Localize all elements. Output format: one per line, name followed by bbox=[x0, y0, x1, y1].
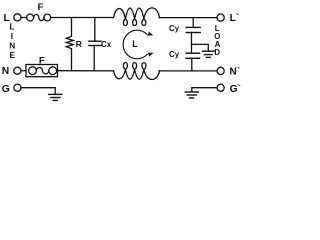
wire bbox=[21, 70, 26, 72]
svg-text:L: L bbox=[10, 23, 15, 32]
svg-text:F: F bbox=[39, 55, 45, 66]
ground branch (middle right) bbox=[192, 44, 209, 50]
svg-text:N: N bbox=[9, 41, 15, 50]
svg-text:D: D bbox=[214, 48, 220, 57]
terminal N bbox=[14, 67, 21, 74]
svg-text:G: G bbox=[2, 84, 10, 95]
fuse F2 (boxed) bbox=[26, 65, 58, 77]
svg-text:I: I bbox=[11, 32, 13, 41]
capacitor Cy (bottom) bbox=[186, 53, 200, 58]
wire bbox=[51, 17, 114, 19]
svg-text:N`: N` bbox=[229, 66, 240, 77]
terminal G bbox=[14, 84, 21, 91]
terminal L bbox=[14, 14, 21, 21]
svg-text:Cy: Cy bbox=[169, 24, 180, 33]
svg-text:L: L bbox=[132, 39, 138, 49]
svg-text:Cy: Cy bbox=[169, 50, 180, 59]
fuse F1 bbox=[27, 14, 34, 21]
terminal G' with ground bbox=[217, 84, 224, 91]
resistor R bbox=[66, 18, 73, 71]
svg-text:L`: L` bbox=[230, 13, 240, 24]
wire bbox=[21, 17, 27, 19]
svg-text:R: R bbox=[76, 39, 82, 49]
ground (bottom right) bbox=[185, 92, 198, 98]
svg-text:E: E bbox=[10, 51, 16, 60]
terminal N' bbox=[217, 67, 224, 74]
svg-text:N: N bbox=[2, 66, 9, 77]
wire bbox=[192, 88, 217, 92]
svg-text:G`: G` bbox=[230, 84, 241, 95]
wire bottom to N' bbox=[159, 70, 217, 72]
svg-text:F: F bbox=[38, 2, 44, 13]
terminal L' bbox=[217, 14, 224, 21]
choke arrow bbox=[123, 30, 147, 59]
ground (middle right) bbox=[203, 51, 215, 57]
ground (left) bbox=[49, 94, 62, 100]
capacitor Cx bbox=[94, 18, 96, 42]
choke winding top bbox=[114, 8, 160, 26]
wire bbox=[21, 88, 55, 94]
choke winding bottom bbox=[114, 63, 160, 80]
wire top to L' bbox=[159, 17, 217, 19]
wire bbox=[58, 70, 114, 72]
svg-text:Cx: Cx bbox=[101, 40, 112, 49]
capacitor Cy (top) bbox=[192, 18, 194, 27]
